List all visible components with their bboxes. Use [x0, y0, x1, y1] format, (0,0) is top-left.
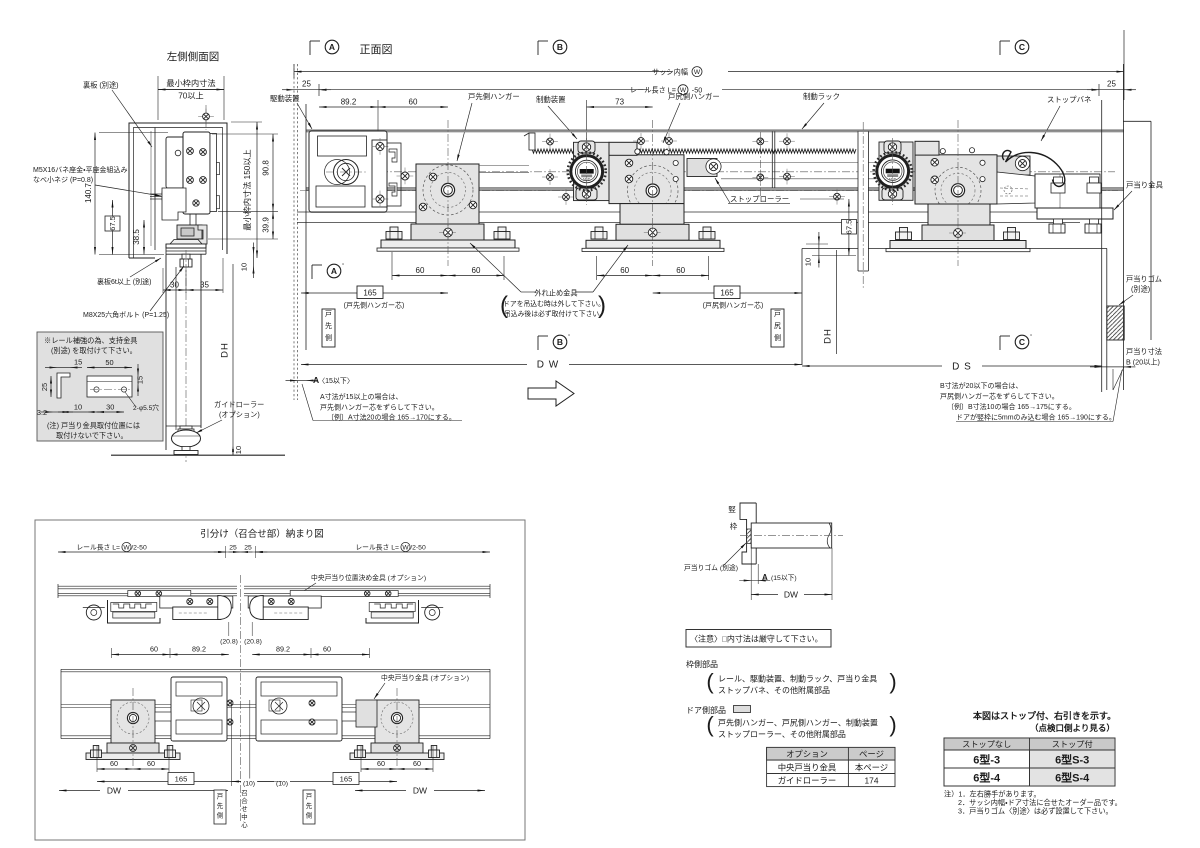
svg-text:50: 50 — [105, 358, 113, 367]
top screw — [198, 116, 214, 118]
svg-text:B: B — [557, 42, 563, 52]
svg-text:(オプション): (オプション) — [219, 410, 260, 419]
svg-text:〈注意〉□内寸法は厳守して下さい。: 〈注意〉□内寸法は厳守して下さい。 — [690, 634, 823, 644]
svg-text:ストップローラー: ストップローラー — [730, 195, 789, 204]
rail length dims — [58, 551, 226, 553]
stop spring ストップバネ — [1002, 150, 1064, 186]
svg-text:174: 174 — [865, 776, 879, 786]
戸先側 box label — [322, 309, 335, 347]
centerline through gears — [310, 171, 1115, 173]
svg-text:(戸尻側ハンガー芯): (戸尻側ハンガー芯) — [703, 301, 764, 310]
svg-text:38.5: 38.5 — [132, 229, 141, 245]
rubber hatched — [747, 529, 752, 544]
svg-text:60: 60 — [150, 645, 158, 654]
brake device 制動装置 (B) — [574, 142, 610, 200]
svg-text:(10): (10) — [243, 781, 255, 788]
svg-text:C: C — [1019, 42, 1025, 52]
svg-text:140.7: 140.7 — [84, 182, 93, 203]
hanger B pedestal/base — [620, 204, 684, 225]
svg-text:(別途) を取付けて下さい。: (別途) を取付けて下さい。 — [51, 346, 137, 355]
svg-text:60: 60 — [472, 266, 481, 275]
svg-text:（点検口側より見る）: （点検口側より見る） — [1030, 723, 1115, 733]
svg-text:戸尻側ハンガー: 戸尻側ハンガー — [668, 92, 720, 101]
svg-text:ストップバネ: ストップバネ — [1047, 95, 1091, 104]
svg-text:先: 先 — [306, 801, 313, 810]
svg-text:レール長さ L=: レール長さ L= — [76, 544, 120, 552]
bracket sketch — [57, 373, 70, 398]
svg-text:戸先側ハンガー: 戸先側ハンガー — [468, 92, 520, 101]
arm extension — [997, 172, 1035, 204]
svg-text:D W: D W — [537, 360, 559, 371]
svg-text:ページ: ページ — [859, 749, 884, 759]
svg-text:取付けないで下さい。: 取付けないで下さい。 — [56, 431, 128, 440]
svg-text:制動ラック: 制動ラック — [803, 92, 840, 101]
svg-text:吊込み後は必ず取付けて下さい。: 吊込み後は必ず取付けて下さい。 — [504, 309, 606, 318]
svg-text:60: 60 — [676, 266, 685, 275]
rail foot profile — [170, 240, 202, 245]
svg-text:(別途): (別途) — [1131, 285, 1150, 294]
svg-text:引分け（召合せ部）納まり図: 引分け（召合せ部）納まり図 — [200, 528, 324, 540]
svg-text:67.5: 67.5 — [108, 216, 117, 230]
hanger C body — [915, 155, 997, 204]
svg-text:戸: 戸 — [774, 310, 781, 318]
svg-text:60: 60 — [323, 645, 331, 654]
svg-text:60: 60 — [620, 266, 629, 275]
rack teeth overlay — [637, 149, 856, 153]
lower dims — [96, 746, 98, 772]
svg-text:165: 165 — [175, 775, 188, 784]
svg-text:裏板 (別途): 裏板 (別途) — [83, 81, 119, 90]
upper rails — [58, 585, 237, 587]
svg-text:6型-3: 6型-3 — [973, 753, 1000, 767]
dim 25 left — [294, 89, 319, 91]
svg-text:戸尻側ハンガー芯をずらして下さい。: 戸尻側ハンガー芯をずらして下さい。 — [940, 392, 1059, 401]
svg-text:10: 10 — [234, 446, 243, 454]
svg-text:心: 心 — [241, 820, 248, 829]
svg-text:60: 60 — [110, 759, 118, 768]
hanger lower block — [177, 225, 202, 239]
svg-text:25: 25 — [40, 383, 49, 391]
svg-text:ストップローラー、その他附属部品: ストップローラー、その他附属部品 — [718, 729, 846, 739]
door stop bracket 戸当り金具 — [1035, 174, 1100, 208]
svg-text:/2-50: /2-50 — [131, 545, 147, 552]
svg-text:尻: 尻 — [774, 322, 781, 330]
svg-text:6型-4: 6型-4 — [973, 771, 1001, 785]
svg-text:A: A — [331, 266, 337, 276]
10 dim — [806, 243, 828, 245]
svg-text:89.2: 89.2 — [192, 645, 206, 654]
svg-text:B寸法が20以下の場合は、: B寸法が20以下の場合は、 — [940, 381, 1022, 390]
hanger B 戸尻側ハンガー — [609, 155, 684, 204]
dim 165 B — [653, 292, 802, 294]
svg-text:(: ( — [706, 669, 714, 694]
section marker B — [537, 41, 539, 55]
svg-text:): ) — [889, 712, 896, 737]
svg-text:ガイドローラー: ガイドローラー — [778, 776, 837, 786]
svg-text:戸当り金具: 戸当り金具 — [1126, 181, 1164, 190]
svg-text:正面図: 正面図 — [360, 43, 393, 56]
svg-text:オプション: オプション — [786, 749, 828, 759]
DW dim — [301, 364, 802, 366]
hanger side boxes — [166, 137, 186, 188]
svg-text:なべ小ネジ (P=0.8): なべ小ネジ (P=0.8) — [33, 175, 93, 184]
svg-text:6型S-4: 6型S-4 — [1055, 771, 1090, 785]
svg-text:戸当り寸法: 戸当り寸法 — [1126, 347, 1162, 356]
svg-text:70以上: 70以上 — [178, 92, 203, 101]
svg-text:中央戸当り金具 (オプション): 中央戸当り金具 (オプション) — [381, 673, 469, 682]
svg-text:ストップ付: ストップ付 — [1052, 739, 1093, 749]
svg-text:ドアを吊込む時は外して下さい。: ドアを吊込む時は外して下さい。 — [503, 299, 605, 308]
svg-text:30: 30 — [170, 281, 179, 290]
dims (20.8) — [228, 622, 230, 636]
svg-text:本ページ: 本ページ — [855, 763, 888, 773]
bottom left drawing 引分け（召合せ部）納まり図 — [35, 520, 525, 840]
svg-text:15: 15 — [74, 358, 82, 367]
svg-text:枠側部品: 枠側部品 — [686, 659, 718, 669]
DH right — [836, 250, 838, 354]
section marks A' B' C' — [311, 265, 313, 279]
brake rack 制動ラック — [532, 149, 574, 153]
door panel below — [165, 254, 167, 450]
hanger A 戸先側ハンガー — [416, 164, 479, 224]
svg-text:中央戸当り位置決め金具 (オプション): 中央戸当り位置決め金具 (オプション) — [311, 573, 426, 582]
dim 30 35 — [162, 268, 164, 293]
svg-text:35: 35 — [200, 281, 209, 290]
lower rails — [61, 668, 490, 670]
svg-text:): ) — [598, 292, 606, 319]
base bolts — [390, 227, 398, 232]
svg-text:サッシ内幅: サッシ内幅 — [652, 68, 688, 77]
svg-text:左側側面図: 左側側面図 — [167, 50, 220, 63]
dims 140.7 67.5 38.5 — [99, 132, 168, 134]
svg-text:先: 先 — [325, 321, 332, 330]
DW dims — [59, 790, 228, 792]
svg-text:戸: 戸 — [306, 793, 312, 801]
svg-text:本図はストップ付、右引きを示す。: 本図はストップ付、右引きを示す。 — [972, 710, 1116, 721]
guide roller — [180, 426, 192, 429]
big arrow — [528, 381, 574, 406]
svg-text:駆動装置: 駆動装置 — [270, 94, 300, 103]
svg-text:10: 10 — [74, 403, 82, 412]
svg-text:25: 25 — [244, 545, 252, 552]
svg-text:合: 合 — [241, 796, 248, 805]
ground line — [111, 454, 285, 456]
svg-text:最小枠内寸法: 最小枠内寸法 — [166, 78, 215, 88]
svg-text:DH: DH — [220, 342, 231, 358]
left side view 左側側面図 — [33, 50, 285, 462]
backing plate 裏板 — [154, 128, 156, 251]
brake device C gear — [879, 142, 913, 200]
svg-text:W: W — [694, 69, 701, 76]
svg-text:戸: 戸 — [325, 310, 332, 318]
svg-text:39.9: 39.9 — [262, 217, 271, 233]
svg-text:): ) — [889, 669, 896, 694]
DW dim — [831, 548, 833, 600]
svg-text:DH: DH — [823, 328, 834, 344]
svg-text:25: 25 — [229, 545, 237, 552]
svg-text:戸: 戸 — [217, 793, 223, 801]
svg-text:165: 165 — [340, 775, 353, 784]
svg-text:裏板6t以上 (別途): 裏板6t以上 (別途) — [97, 277, 151, 286]
svg-text:レール、駆動装置、制動ラック、戸当り金具: レール、駆動装置、制動ラック、戸当り金具 — [718, 674, 877, 684]
dim 165 A — [301, 292, 448, 294]
svg-text:(注) 戸当り金具取付位置には: (注) 戸当り金具取付位置には — [47, 421, 140, 430]
svg-text:M8X25六角ボルト (P=1.25): M8X25六角ボルト (P=1.25) — [83, 310, 169, 319]
svg-text:60: 60 — [416, 266, 425, 275]
door panel — [751, 523, 832, 548]
dim 60+60 at A — [391, 252, 393, 280]
frame outline — [129, 123, 227, 258]
svg-text:側: 側 — [325, 333, 332, 342]
dim 25 right — [1099, 89, 1124, 91]
svg-text:60: 60 — [409, 98, 418, 107]
svg-text:召: 召 — [241, 789, 247, 797]
svg-text:60: 60 — [377, 759, 385, 768]
connecting bar lines — [479, 165, 529, 167]
svg-text:ドアが竪枠に5mmのみ込む場合 165→190にする。: ドアが竪枠に5mmのみ込む場合 165→190にする。 — [956, 413, 1116, 422]
svg-text:側: 側 — [774, 333, 781, 342]
svg-text:戸当りゴム: 戸当りゴム — [1126, 275, 1162, 284]
svg-text:DW: DW — [784, 590, 798, 600]
67.5 dim — [800, 198, 844, 200]
svg-text:ストップなし: ストップなし — [962, 740, 1011, 749]
svg-text:165: 165 — [720, 289, 734, 298]
rail mounting screws — [542, 141, 558, 143]
svg-text:30: 30 — [106, 403, 114, 412]
jamb detail drawing — [684, 503, 843, 600]
svg-text:〈15以下〉: 〈15以下〉 — [318, 377, 354, 385]
M5 screw left — [150, 193, 162, 195]
svg-text:戸先側ハンガー芯をずらして下さい。: 戸先側ハンガー芯をずらして下さい。 — [320, 403, 439, 412]
svg-text:89.2: 89.2 — [276, 645, 290, 654]
svg-text:10: 10 — [804, 258, 813, 266]
svg-text:W: W — [402, 544, 409, 551]
svg-text:2-φ5.5穴: 2-φ5.5穴 — [133, 404, 159, 412]
svg-text:※レール補強の為、支持金具: ※レール補強の為、支持金具 — [44, 336, 137, 345]
svg-text:M5X16バネ座金・平座金組込み: M5X16バネ座金・平座金組込み — [33, 165, 128, 174]
svg-text:165: 165 — [363, 289, 377, 298]
upper left hanger unit (plan) — [83, 591, 233, 624]
svg-text:B (20以上): B (20以上) — [1126, 358, 1160, 367]
lower bracket — [162, 188, 186, 220]
center ext lines + (10) — [231, 700, 233, 786]
gray note box — [37, 332, 163, 441]
dim sash inner width W — [293, 64, 295, 78]
svg-text:10: 10 — [240, 263, 249, 271]
svg-text:竪: 竪 — [728, 505, 736, 514]
rail clips — [389, 149, 397, 162]
svg-text:90.8: 90.8 — [262, 160, 271, 176]
section marker A — [309, 41, 311, 55]
stop roller arm — [687, 159, 717, 177]
svg-text:先: 先 — [217, 801, 224, 810]
svg-text:60: 60 — [413, 759, 421, 768]
svg-text:25: 25 — [302, 80, 311, 89]
svg-text:3．戸当りゴム〈別途〉は必ず設置して下さい。: 3．戸当りゴム〈別途〉は必ず設置して下さい。 — [958, 807, 1113, 816]
svg-text:レール長さ L=: レール長さ L= — [355, 544, 399, 552]
svg-text:67.5: 67.5 — [845, 220, 854, 235]
svg-text:〔例〕A寸法20の場合 165→170にする。: 〔例〕A寸法20の場合 165→170にする。 — [327, 413, 456, 422]
svg-text:3.2: 3.2 — [37, 408, 47, 417]
svg-text:外れ止め金具: 外れ止め金具 — [534, 289, 577, 298]
svg-text:戸当りゴム (別途): 戸当りゴム (別途) — [684, 563, 738, 572]
dim 73 — [587, 106, 653, 108]
svg-text:制動装置: 制動装置 — [536, 95, 566, 104]
svg-text:中央戸当り金具: 中央戸当り金具 — [778, 763, 837, 773]
door edge verticals — [801, 249, 803, 366]
note 外れ止め金具 — [521, 291, 536, 293]
dim 89.2 — [377, 100, 379, 135]
sash left edge — [293, 64, 295, 400]
right jamb lines — [1101, 100, 1103, 392]
svg-text:A寸法が15以上の場合は、: A寸法が15以上の場合は、 — [320, 392, 402, 401]
A dim small + note — [298, 380, 307, 382]
label ストップローラー — [715, 178, 730, 203]
svg-text:ストップバネ、その他附属部品: ストップバネ、その他附属部品 — [718, 685, 830, 695]
戸尻側 box label — [771, 309, 784, 347]
svg-text:DW: DW — [413, 786, 427, 796]
front view 正面図 — [270, 30, 1164, 422]
dim 60 — [378, 106, 448, 108]
svg-text:中: 中 — [241, 812, 247, 821]
jamb frame outline — [740, 503, 756, 564]
svg-text:25: 25 — [1107, 80, 1116, 89]
drive unit 駆動装置 — [309, 131, 387, 212]
svg-text:戸先側ハンガー、戸尻側ハンガー、制動装置: 戸先側ハンガー、戸尻側ハンガー、制動装置 — [718, 718, 878, 728]
svg-text:A: A — [329, 42, 335, 52]
svg-text:6型S-3: 6型S-3 — [1055, 753, 1089, 767]
lower left unit — [111, 700, 155, 743]
svg-text:C: C — [1019, 337, 1025, 347]
svg-text:側: 側 — [306, 812, 312, 820]
svg-text:(戸先側ハンガー芯): (戸先側ハンガー芯) — [344, 301, 405, 310]
options table — [767, 747, 895, 786]
DH dim left — [232, 264, 234, 455]
svg-text:89.2: 89.2 — [341, 98, 357, 107]
hanger C pedestal/base — [928, 204, 990, 225]
B dim small — [1102, 366, 1123, 368]
DS dim — [802, 365, 1102, 367]
svg-text:73: 73 — [615, 98, 624, 107]
注意 box — [686, 630, 831, 648]
svg-text:最小枠内寸法 150以上: 最小枠内寸法 150以上 — [242, 149, 252, 230]
door cap — [166, 247, 206, 249]
dim 60+60 at B — [596, 256, 598, 280]
svg-text:せ: せ — [241, 805, 247, 813]
svg-text:側: 側 — [217, 812, 223, 820]
rail (レール) — [306, 130, 1124, 132]
connector rods — [155, 712, 171, 721]
svg-text:(: ( — [500, 292, 508, 319]
svg-text:(: ( — [706, 712, 714, 737]
centerline through hanger bolts — [300, 190, 1118, 192]
stop arm C — [997, 156, 1030, 175]
svg-text:ガイドローラー: ガイドローラー — [214, 400, 264, 409]
bottom vertical labels — [214, 790, 226, 824]
svg-text:15: 15 — [136, 376, 145, 384]
hanger A base — [411, 224, 484, 240]
svg-text:枠: 枠 — [730, 521, 738, 531]
svg-text:(20.8): (20.8) — [220, 639, 238, 646]
door stop rubber 戸当りゴム (hatched) — [1107, 306, 1124, 340]
door/track lines — [297, 211, 1080, 213]
dims 60 89.2 row — [111, 648, 113, 658]
M8 bolt below — [182, 254, 190, 259]
dim rail length L=W-50 — [318, 84, 320, 96]
section marker C — [999, 41, 1001, 55]
svg-text:D S: D S — [952, 362, 972, 373]
svg-text:B: B — [557, 337, 563, 347]
svg-text:DW: DW — [107, 786, 121, 796]
svg-text:(15以下): (15以下) — [771, 574, 797, 582]
svg-text:60: 60 — [147, 759, 155, 768]
svg-text:W: W — [123, 544, 130, 551]
svg-text:(20.8): (20.8) — [244, 639, 262, 646]
svg-text:〔例〕B寸法10の場合 165→175にする。: 〔例〕B寸法10の場合 165→175にする。 — [947, 402, 1076, 411]
svg-text:/2-50: /2-50 — [410, 545, 426, 552]
